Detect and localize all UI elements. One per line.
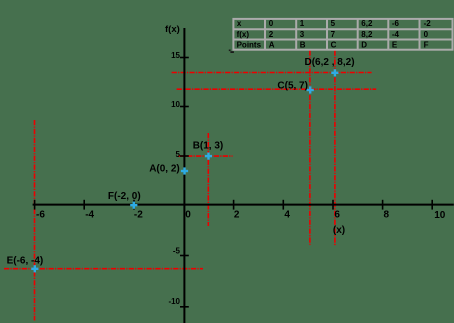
svg-text:f(x): f(x) [237,30,250,39]
svg-text:A(0, 2): A(0, 2) [149,164,180,175]
svg-text:-5: -5 [173,247,181,256]
x axis ticks [35,200,433,210]
svg-text:A: A [269,41,275,50]
node B horizontal guide y=3 [178,155,232,157]
y tick labels [168,51,180,306]
svg-text:C: C [331,41,337,50]
table row f(x) [237,30,429,39]
table row Points [237,41,429,50]
svg-text:4: 4 [284,210,290,221]
svg-text:5: 5 [331,19,336,28]
svg-text:Points: Points [237,41,262,50]
svg-text:E(-6, -4): E(-6, -4) [7,255,44,266]
svg-text:D: D [361,41,367,50]
svg-text:f(x): f(x) [165,24,180,35]
point labels [7,57,355,266]
svg-text:-4: -4 [85,210,94,221]
svg-text:-10: -10 [168,297,180,306]
svg-text:7: 7 [331,30,336,39]
wire: red dash-dot guide lines [4,51,376,321]
node E vertical guide x=-6 [34,120,36,321]
svg-text:2: 2 [234,210,240,221]
svg-text:5: 5 [176,150,181,159]
svg-text:F(-2, 0): F(-2, 0) [108,191,141,202]
svg-text:-4: -4 [392,30,400,39]
node C vertical guide x=5 [309,51,311,245]
svg-text:10: 10 [434,210,446,221]
svg-text:-2: -2 [134,210,143,221]
point F marker [130,202,137,209]
point D marker [331,69,338,76]
svg-text:-6: -6 [36,210,45,221]
svg-text:(x): (x) [333,225,345,236]
svg-text:8,2: 8,2 [361,30,373,39]
y axis ticks [180,58,189,307]
point B marker [205,153,212,160]
svg-text:-6: -6 [392,19,400,28]
svg-text:1: 1 [300,19,305,28]
node D vertical guide x=6.2 [334,51,336,246]
svg-text:F: F [424,41,429,50]
x axis [33,204,454,206]
svg-text:C(5, 7): C(5, 7) [277,80,308,91]
svg-text:8: 8 [384,210,390,221]
node E horizontal guide y=-4 [4,268,203,270]
y axis [183,28,185,323]
node D horizontal guide y=8.2 [172,72,372,74]
point C marker [307,86,314,93]
x tick labels [36,210,446,222]
svg-text:-2: -2 [424,19,432,28]
svg-text:2: 2 [269,30,274,39]
svg-text:6: 6 [334,210,340,221]
point E marker [31,265,38,272]
table grid [233,19,452,50]
svg-text:3: 3 [300,30,305,39]
node C horizontal guide y=7 [177,88,377,90]
point A marker [181,167,188,174]
svg-text:B(1, 3): B(1, 3) [193,141,224,152]
svg-text:0: 0 [185,210,191,221]
svg-text:B: B [300,41,306,50]
svg-text:E: E [392,41,398,50]
svg-text:x: x [237,19,242,28]
table corner tail [229,50,234,54]
svg-text:6,2: 6,2 [361,19,373,28]
svg-text:15: 15 [171,51,180,60]
svg-text:D(6,2 , 8,2): D(6,2 , 8,2) [305,57,355,68]
svg-text:0: 0 [424,30,429,39]
table row x [237,19,431,28]
svg-text:0: 0 [269,19,274,28]
node B vertical guide x=1 [207,133,209,226]
svg-text:10: 10 [171,100,180,109]
